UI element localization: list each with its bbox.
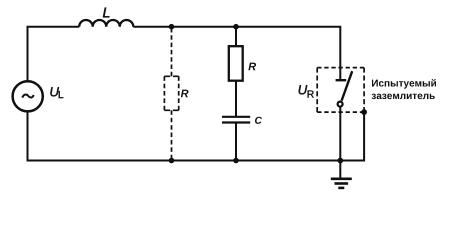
wire: left vertical bottom and bottom bus — [28, 112, 341, 161]
wire: enclosure corner down and left to ground junction — [340, 112, 364, 160]
node: top junction of dashed branch — [169, 24, 175, 30]
node: bottom junction of dashed branch — [169, 158, 175, 164]
node: ground junction — [337, 158, 343, 164]
enclosure box left edge — [316, 68, 318, 113]
label C — [255, 117, 262, 124]
ground stem — [339, 161, 341, 178]
label U_L (U) — [50, 87, 59, 96]
switch fixed contact bar — [336, 79, 347, 81]
text: заземлитель — [372, 94, 435, 100]
label L — [103, 8, 110, 18]
capacitor C bottom plate — [222, 121, 250, 123]
enclosure box top edge — [317, 67, 364, 69]
wire: resistor to capacitor — [235, 81, 237, 116]
node: top junction of RC branch — [233, 24, 239, 30]
node: enclosure corner junction — [361, 109, 367, 115]
node: bottom junction of RC branch — [233, 158, 239, 164]
wire: top bus right of inductor, turning down into switch box — [133, 27, 340, 79]
wire: RC branch top segment — [235, 27, 237, 47]
enclosure box right edge — [363, 68, 365, 113]
label U_R (subscript R) — [308, 91, 314, 98]
label U_L (subscript L) — [59, 91, 64, 98]
wire: capacitor to bottom bus — [235, 123, 237, 161]
resistor R (dashed) bottom edge — [164, 109, 178, 111]
source U_L tilde — [22, 95, 33, 98]
text: Испытуемый — [372, 79, 436, 89]
resistor R — [229, 46, 243, 80]
wire: dashed branch lower segment — [171, 110, 173, 159]
capacitor C top plate — [222, 116, 250, 118]
source U_L circle — [13, 81, 43, 111]
label R (resistor) — [248, 63, 256, 71]
wire: dashed branch upper segment — [171, 28, 173, 76]
label U_R (U) — [299, 85, 308, 94]
inductor L — [79, 20, 133, 27]
resistor R (dashed) right edge — [178, 76, 180, 110]
ground bar 1 — [331, 178, 352, 181]
ground bar 3 — [338, 187, 344, 190]
enclosure box bottom edge — [317, 111, 364, 113]
wire: switch pivot to bottom bus — [339, 107, 341, 160]
switch pivot circle — [338, 102, 343, 107]
wire: top-left corner and top bus to inductor — [28, 27, 80, 81]
label R (dashed resistor) — [181, 90, 189, 98]
ground bar 2 — [335, 182, 349, 185]
switch blade — [342, 71, 353, 100]
resistor R (dashed) top edge — [164, 75, 178, 77]
resistor R (dashed) left edge — [163, 76, 165, 110]
